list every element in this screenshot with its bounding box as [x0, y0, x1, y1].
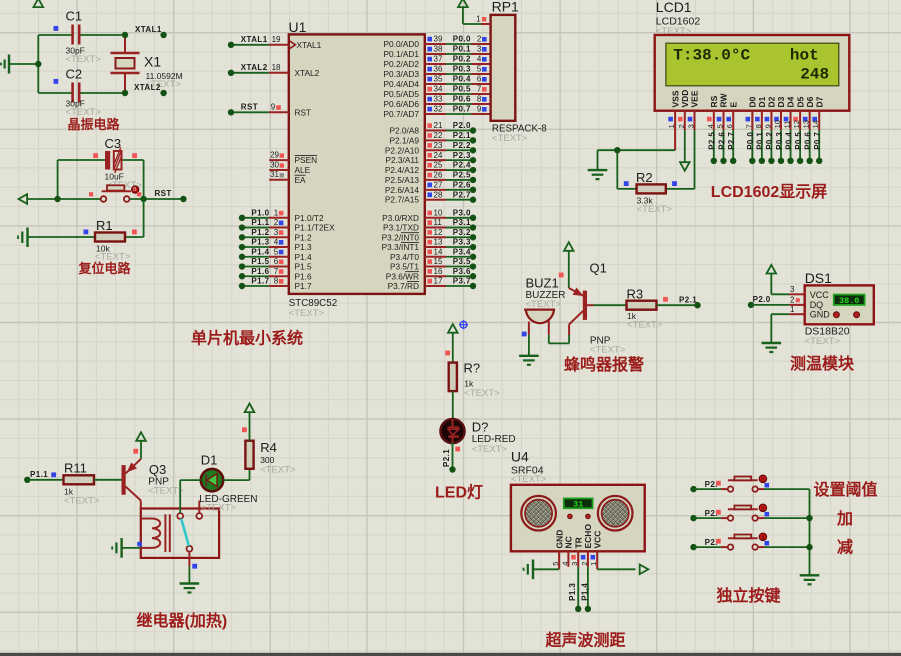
svg-text:2: 2: [677, 124, 686, 128]
wire U4 GND to sideways ground: [524, 560, 560, 580]
svg-text:P3.5: P3.5: [453, 257, 471, 266]
svg-text:P2.2/A10: P2.2/A10: [385, 145, 420, 155]
junction bus-gnd: [35, 61, 41, 67]
svg-text:P1.3: P1.3: [251, 238, 269, 247]
wire RST down to R1: [125, 199, 144, 237]
svg-text:P3.3/INT1: P3.3/INT1: [382, 242, 420, 252]
bottom edge bar: [0, 653, 901, 656]
wire LCD pin 4 to net P2.5: [708, 130, 717, 164]
svg-text:36: 36: [434, 65, 443, 74]
svg-text:XTAL2: XTAL2: [134, 83, 161, 92]
svg-text:38: 38: [434, 45, 443, 54]
svg-text:P1.0/T2: P1.0/T2: [295, 213, 324, 223]
wire C3 right leg: [143, 160, 145, 199]
svg-text:P3.2: P3.2: [453, 228, 471, 237]
wire LCD pin 10 to net P0.3: [775, 130, 784, 164]
svg-text:继电器(加热): 继电器(加热): [137, 611, 228, 630]
svg-text:2: 2: [477, 35, 482, 44]
svg-text:P3.5/T1: P3.5/T1: [390, 262, 419, 272]
svg-text:37: 37: [434, 55, 443, 64]
svg-text:P3.6/WR: P3.6/WR: [386, 271, 419, 281]
caption crystal section: [68, 117, 121, 132]
svg-text:VSS: VSS: [670, 90, 680, 107]
pin RST of U1 (9): [228, 103, 311, 118]
svg-text:R?: R?: [464, 361, 481, 376]
LCD pin 3 stub: [687, 111, 696, 130]
svg-text:4: 4: [560, 562, 569, 566]
svg-text:300: 300: [260, 455, 274, 465]
power terminal left (reset row): [19, 194, 101, 204]
svg-text:DS1: DS1: [805, 270, 832, 286]
svg-text:P2.7: P2.7: [453, 190, 471, 199]
pin P2.2 of U1 (23): [385, 141, 476, 155]
U4 pin 2 (ECHO) stub: [580, 551, 589, 567]
caption LED section: [435, 484, 483, 502]
svg-text:T:38.0°C: T:38.0°C: [673, 46, 750, 64]
svg-text:TR: TR: [573, 537, 583, 548]
pin P0.2 of U1 (37) wire to RP1 pin 4: [383, 55, 490, 69]
node XTAL1: [122, 25, 167, 38]
resistor R2: [624, 170, 677, 215]
wire LCD pin 7 to net P0.0: [746, 130, 755, 164]
svg-text:16: 16: [434, 267, 443, 276]
svg-text:<TEXT>: <TEXT>: [464, 388, 500, 399]
svg-text:hot: hot: [790, 46, 819, 64]
pin P2.3 of U1 (24): [385, 151, 476, 165]
ground below LCD: [588, 170, 608, 179]
svg-text:14: 14: [811, 120, 820, 128]
node XTAL2: [122, 83, 167, 96]
wire LCD VSS pin1 / VEE pin3 network with R2: [598, 130, 695, 189]
svg-text:Q3: Q3: [149, 462, 166, 477]
svg-text:P0.1/AD1: P0.1/AD1: [383, 49, 419, 59]
svg-text:3: 3: [790, 285, 795, 294]
svg-text:9: 9: [763, 124, 772, 128]
svg-text:R1: R1: [96, 218, 113, 233]
svg-text:P2.6: P2.6: [453, 181, 471, 190]
svg-text:P0.4: P0.4: [784, 132, 793, 150]
svg-text:X1: X1: [144, 54, 161, 70]
power symbol above DS1: [767, 265, 790, 294]
svg-text:U1: U1: [289, 19, 307, 35]
svg-text:<TEXT>: <TEXT>: [64, 496, 100, 507]
svg-text:1: 1: [476, 14, 481, 23]
wire C3 left leg: [57, 160, 59, 199]
resistor R3: [627, 287, 668, 331]
svg-text:6: 6: [725, 124, 734, 128]
svg-text:晶振电路: 晶振电路: [68, 117, 121, 132]
pin 2 of RP1: [477, 35, 487, 44]
svg-text:3: 3: [477, 45, 482, 54]
svg-text:P1.0: P1.0: [251, 209, 269, 218]
svg-text:3: 3: [687, 124, 696, 128]
svg-text:P1.1: P1.1: [30, 470, 48, 479]
svg-text:D1: D1: [201, 453, 218, 468]
pin XTAL1 of U1 (19): [228, 35, 322, 50]
ground below relay: [180, 584, 200, 593]
U4 left transducer: [521, 496, 556, 531]
resistor R4 vertical: [245, 440, 296, 476]
pin 7 of RP1: [477, 85, 487, 94]
svg-text:P0.6/AD6: P0.6/AD6: [383, 99, 419, 109]
svg-text:<TEXT>: <TEXT>: [590, 345, 626, 356]
svg-text:P0.7: P0.7: [453, 105, 471, 114]
svg-text:设置阈值: 设置阈值: [814, 480, 878, 499]
svg-text:12: 12: [792, 120, 801, 128]
svg-text:C3: C3: [105, 136, 122, 151]
svg-text:D3: D3: [776, 96, 786, 107]
svg-text:14: 14: [434, 247, 443, 256]
crystal X1: [111, 35, 183, 93]
wire R11 to Q3 base: [94, 479, 122, 481]
svg-text:P0.2: P0.2: [453, 55, 471, 64]
capacitor C3 (electrolytic): [58, 136, 144, 191]
wire C1/C2 left bus: [37, 35, 39, 93]
wire U4 TR to node P1.3: [568, 567, 581, 612]
svg-text:D4: D4: [786, 96, 796, 107]
svg-text:38.0: 38.0: [839, 296, 859, 306]
svg-text:LCD1602显示屏: LCD1602显示屏: [711, 183, 827, 201]
svg-text:P3.3: P3.3: [453, 238, 471, 247]
svg-text:P2.: P2.: [705, 509, 718, 518]
svg-text:<TEXT>: <TEXT>: [260, 465, 296, 476]
svg-text:PSEN: PSEN: [295, 155, 318, 165]
push button key3 (net P2.4): [690, 533, 809, 550]
svg-text:P2.1: P2.1: [679, 296, 697, 305]
svg-text:RST: RST: [241, 103, 258, 112]
svg-text:P2.4/A12: P2.4/A12: [385, 165, 420, 175]
pin P0.3 of U1 (36) wire to RP1 pin 5: [383, 65, 490, 79]
node P2.0 to DS1: [748, 295, 789, 308]
svg-text:248: 248: [800, 66, 829, 84]
svg-text:23: 23: [434, 141, 443, 150]
pin P1.2 of U1 (3): [239, 228, 312, 242]
wire BUZ1 to Q1 collector: [529, 335, 569, 356]
pin P1.7 of U1 (8): [239, 277, 312, 291]
ground (sideways) at relay coil: [112, 538, 142, 558]
ground below DS1: [762, 343, 782, 352]
svg-text:6: 6: [477, 75, 482, 84]
svg-text:RST: RST: [155, 189, 172, 198]
svg-text:25: 25: [434, 161, 443, 170]
svg-text:<TEXT>: <TEXT>: [201, 503, 237, 514]
svg-text:<TEXT>: <TEXT>: [805, 336, 841, 347]
svg-text:XTAL1: XTAL1: [241, 35, 268, 44]
LCD pin 14 stub: [811, 111, 820, 130]
wire LED D? to node P2.1: [442, 442, 455, 472]
svg-text:28: 28: [434, 190, 443, 199]
wire R3 to node P2.1: [657, 296, 701, 309]
svg-text:LCD1: LCD1: [656, 0, 692, 15]
svg-text:P1.6: P1.6: [295, 271, 312, 281]
svg-text:1: 1: [790, 305, 795, 314]
svg-text:P0.2/AD2: P0.2/AD2: [383, 59, 419, 69]
pin P0.6 of U1 (33) wire to RP1 pin 8: [383, 95, 490, 109]
pin P0.5 of U1 (34) wire to RP1 pin 7: [383, 85, 490, 99]
wire Q1 base to R3: [594, 304, 627, 306]
caption buzzer section: [564, 355, 644, 374]
pin P0.7 of U1 (32) wire to RP1 pin 9: [383, 105, 490, 119]
svg-text:D5: D5: [795, 96, 805, 107]
pin P2.0 of U1 (21): [389, 121, 476, 135]
pin P3.7 of U1 (17): [388, 277, 477, 291]
svg-text:<TEXT>: <TEXT>: [511, 474, 547, 485]
svg-text:P2.5/A13: P2.5/A13: [385, 175, 420, 185]
LCD pin 10 stub: [773, 111, 782, 130]
svg-text:C2: C2: [66, 67, 83, 82]
caption reset section: [78, 261, 132, 276]
svg-text:P0.0: P0.0: [453, 35, 471, 44]
wire D1 to relay NO contact: [180, 480, 201, 513]
svg-text:P1.3: P1.3: [295, 242, 312, 252]
svg-text:P0.3: P0.3: [775, 132, 784, 150]
svg-text:加: 加: [836, 510, 853, 528]
capacitor C1: [38, 9, 125, 66]
resistor R? vertical: [449, 361, 500, 400]
caption LCD section: [711, 183, 827, 201]
svg-text:P0.0/AD0: P0.0/AD0: [383, 39, 419, 49]
svg-text:24: 24: [434, 151, 443, 160]
svg-text:P2.: P2.: [705, 538, 718, 547]
caption threshold keys: [814, 480, 878, 557]
svg-text:P0.5/AD5: P0.5/AD5: [383, 89, 419, 99]
svg-text:P3.7/RD: P3.7/RD: [388, 281, 419, 291]
pin P2.6 of U1 (27): [385, 181, 476, 195]
wire relay common contact to ground: [189, 552, 197, 583]
svg-text:22: 22: [434, 131, 443, 140]
svg-text:RS: RS: [709, 95, 719, 107]
svg-text:P1.2: P1.2: [295, 232, 312, 242]
svg-text:31: 31: [270, 170, 279, 179]
pin EA of U1 (31): [269, 170, 306, 185]
svg-text:P0.1: P0.1: [453, 45, 471, 54]
wire LCD pin 6 to net P2.7: [727, 130, 736, 164]
svg-text:D7: D7: [814, 96, 824, 107]
svg-text:P0.5: P0.5: [794, 132, 803, 150]
relay body (coil + contacts): [141, 501, 219, 558]
svg-text:33: 33: [434, 95, 443, 104]
pin P0.4 of U1 (35) wire to RP1 pin 6: [383, 75, 490, 89]
power symbol above Q1: [559, 242, 574, 288]
caption ultrasonic section: [545, 631, 626, 650]
pin P2.4 of U1 (25): [385, 161, 476, 175]
junction VSS-R2: [614, 147, 620, 153]
pin P1.1 of U1 (2): [239, 218, 335, 232]
svg-text:独立按键: 独立按键: [717, 586, 781, 605]
svg-text:P2.7: P2.7: [727, 132, 736, 150]
svg-text:3: 3: [274, 228, 279, 237]
svg-text:1: 1: [274, 209, 279, 218]
pin P3.3 of U1 (13): [382, 238, 477, 252]
svg-text:P1.3: P1.3: [568, 583, 577, 601]
ground below buttons: [800, 575, 820, 584]
junction reset-left: [54, 196, 60, 202]
U4 distance display: [564, 498, 593, 509]
ground (sideways) left of R1: [18, 228, 95, 248]
svg-text:4: 4: [706, 124, 715, 128]
svg-text:17: 17: [434, 277, 443, 286]
wire LCD pin 13 to net P0.6: [803, 130, 812, 164]
svg-text:E: E: [728, 102, 738, 108]
svg-text:C1: C1: [66, 9, 83, 24]
LCD pin 4 stub: [706, 111, 715, 130]
svg-text:2: 2: [761, 506, 764, 512]
svg-text:XTAL2: XTAL2: [295, 68, 320, 78]
svg-text:3: 3: [570, 562, 579, 566]
svg-text:<TEXT>: <TEXT>: [66, 54, 102, 65]
svg-text:复位电路: 复位电路: [78, 261, 132, 276]
svg-text:P2.1: P2.1: [442, 449, 451, 467]
svg-text:NC: NC: [564, 536, 574, 548]
svg-text:<TEXT>: <TEXT>: [289, 308, 325, 319]
LCD pin 1 stub: [667, 111, 676, 151]
temperature sensor DS1 DS18B20: [789, 270, 874, 347]
svg-text:1: 1: [667, 124, 676, 128]
wire U4 ECHO to node P1.4: [581, 567, 592, 612]
svg-text:单片机最小系统: 单片机最小系统: [191, 329, 303, 348]
svg-text:P0.4: P0.4: [453, 75, 471, 84]
power symbol above R?: [445, 324, 457, 363]
wire LCD pin 14 to net P0.7: [813, 130, 822, 164]
pin 9 of RP1: [477, 105, 487, 114]
caption independent keys: [717, 586, 781, 605]
svg-text:P2.0: P2.0: [453, 121, 471, 130]
svg-text:15: 15: [434, 257, 443, 266]
resistor R11: [64, 461, 100, 507]
svg-text:32: 32: [434, 105, 443, 114]
ultrasonic module U4 SRF04 body: [511, 449, 645, 552]
svg-text:RW: RW: [719, 93, 729, 108]
svg-text:蜂鸣器报警: 蜂鸣器报警: [564, 355, 644, 374]
svg-text:<TEXT>: <TEXT>: [472, 444, 508, 455]
svg-text:5: 5: [716, 124, 725, 128]
svg-text:P2.4: P2.4: [453, 161, 471, 170]
pin P3.1 of U1 (11): [383, 218, 476, 232]
svg-text:9: 9: [477, 105, 482, 114]
svg-text:P2.1/A9: P2.1/A9: [389, 135, 419, 145]
svg-text:P2.7/A15: P2.7/A15: [385, 195, 420, 205]
U4 pin 4 (NC) stub: [560, 551, 569, 567]
pin P0.0 of U1 (39) wire to RP1 pin 2: [383, 35, 490, 49]
caption MCU minimal system: [191, 329, 303, 348]
svg-text:5: 5: [551, 562, 560, 566]
pin P1.5 of U1 (6): [239, 257, 312, 271]
LCD pin 12 stub: [792, 111, 801, 130]
transistor Q1 PNP: [569, 261, 626, 356]
LCD pin 13 stub: [802, 111, 811, 130]
svg-text:VCC: VCC: [592, 531, 602, 549]
svg-text:35: 35: [434, 75, 443, 84]
pin P1.0 of U1 (1): [239, 209, 324, 223]
svg-text:P1.7: P1.7: [295, 281, 312, 291]
U4 pin 3 (TR) stub: [570, 551, 579, 567]
svg-text:30: 30: [270, 160, 279, 169]
LCD pin 7 stub: [744, 111, 753, 130]
svg-text:P0.5: P0.5: [453, 85, 471, 94]
svg-text:P0.0: P0.0: [746, 132, 755, 150]
svg-text:8: 8: [477, 95, 482, 104]
caption temperature section: [790, 354, 855, 373]
wire LCD pin 9 to net P0.2: [765, 130, 774, 164]
svg-text:P0.7/AD7: P0.7/AD7: [383, 109, 419, 119]
svg-text:VEE: VEE: [690, 90, 700, 107]
svg-text:29: 29: [270, 150, 279, 159]
svg-text:P1.5: P1.5: [295, 262, 312, 272]
svg-text:39: 39: [434, 35, 443, 44]
svg-text:11: 11: [434, 218, 443, 227]
svg-text:P3.0/RXD: P3.0/RXD: [382, 213, 419, 223]
pin P2.1 of U1 (22): [389, 131, 476, 145]
svg-text:3: 3: [761, 535, 764, 541]
svg-text:P3.0: P3.0: [453, 209, 471, 218]
svg-text:P1.4: P1.4: [581, 583, 590, 601]
svg-text:21: 21: [434, 121, 443, 130]
pin P3.5 of U1 (15): [390, 257, 476, 271]
wire LCD pin 8 to net P0.1: [756, 130, 765, 164]
svg-text:<TEXT>: <TEXT>: [627, 320, 663, 331]
svg-text:1: 1: [589, 562, 598, 566]
svg-text:VDD: VDD: [680, 90, 690, 108]
svg-text:12: 12: [434, 228, 443, 237]
svg-text:P3.1/TXD: P3.1/TXD: [383, 223, 419, 233]
svg-text:D0: D0: [748, 96, 758, 107]
svg-text:1k: 1k: [464, 379, 474, 389]
svg-text:Q1: Q1: [590, 261, 607, 276]
LCD pin 9 stub: [763, 111, 772, 130]
svg-text:7: 7: [274, 267, 279, 276]
node RST terminal: [155, 189, 187, 202]
U4 indicator leds: [568, 514, 591, 519]
svg-text:P0.1: P0.1: [756, 132, 765, 150]
svg-text:P1.5: P1.5: [251, 257, 269, 266]
svg-text:<TEXT>: <TEXT>: [148, 486, 184, 497]
pin 4 of RP1: [477, 55, 487, 64]
svg-text:2: 2: [274, 218, 279, 227]
pin P2.7 of U1 (28): [385, 190, 476, 204]
svg-text:5: 5: [274, 247, 279, 256]
pin P3.2 of U1 (12): [382, 228, 477, 242]
U4 pin name labels (rotated): [554, 524, 602, 549]
svg-text:13: 13: [802, 120, 811, 128]
push button key2 (net P2.3): [690, 504, 809, 521]
svg-text:P1.2: P1.2: [251, 228, 269, 237]
svg-text:P2.: P2.: [705, 480, 718, 489]
svg-text:31: 31: [573, 499, 583, 509]
power symbol top-left: [34, 0, 44, 7]
svg-text:P1.1: P1.1: [251, 218, 269, 227]
wire LCD pin 12 to net P0.5: [794, 130, 803, 164]
U4 right transducer: [598, 496, 633, 531]
svg-text:<TEXT>: <TEXT>: [526, 299, 562, 310]
svg-text:7: 7: [477, 85, 482, 94]
svg-text:P3.6: P3.6: [453, 267, 471, 276]
svg-text:P3.7: P3.7: [453, 277, 471, 286]
pin P3.6 of U1 (16): [386, 267, 476, 281]
svg-text:P2.1: P2.1: [453, 131, 471, 140]
svg-text:5: 5: [477, 65, 482, 74]
U4 pin 5 (GND) stub: [551, 551, 560, 569]
wire R? to LED D?: [452, 391, 454, 419]
wire LCD pin 5 to net P2.6: [717, 130, 726, 164]
svg-text:R2: R2: [636, 170, 653, 185]
svg-text:11: 11: [783, 121, 792, 129]
junction RST: [140, 196, 146, 202]
svg-text:10: 10: [773, 120, 782, 128]
svg-text:34: 34: [434, 85, 443, 94]
svg-text:P2.3/A11: P2.3/A11: [385, 155, 419, 165]
svg-text:8: 8: [274, 277, 279, 286]
pin P1.6 of U1 (7): [239, 267, 312, 281]
